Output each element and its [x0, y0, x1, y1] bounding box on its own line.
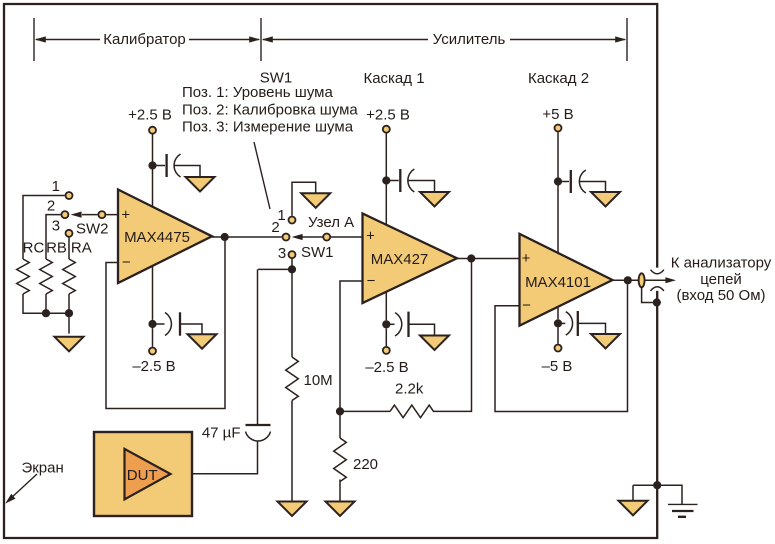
svg-text:+: + — [121, 207, 130, 224]
svg-text:SW2: SW2 — [76, 221, 109, 238]
svg-text:+: + — [522, 250, 531, 267]
svg-text:−: − — [122, 254, 131, 271]
svg-text:2.2k: 2.2k — [395, 380, 424, 397]
svg-text:3: 3 — [278, 245, 286, 262]
svg-text:−: − — [367, 273, 376, 290]
svg-text:2: 2 — [271, 219, 279, 236]
svg-text:+5 В: +5 В — [542, 106, 573, 123]
svg-text:+2.5 В: +2.5 В — [128, 106, 172, 123]
svg-text:Поз. 1: Уровень шума: Поз. 1: Уровень шума — [182, 84, 333, 101]
svg-text:RA: RA — [71, 239, 92, 256]
svg-text:RC: RC — [23, 239, 45, 256]
svg-text:(вход 50 Ом): (вход 50 Ом) — [676, 287, 765, 304]
svg-text:−: − — [522, 297, 531, 314]
svg-text:Поз. 2: Калибровка шума: Поз. 2: Калибровка шума — [182, 101, 358, 118]
svg-text:DUT: DUT — [127, 467, 158, 484]
svg-text:MAX4475: MAX4475 — [124, 229, 190, 246]
svg-text:К анализатору: К анализатору — [671, 255, 772, 272]
svg-text:3: 3 — [52, 218, 60, 235]
svg-text:MAX4101: MAX4101 — [525, 274, 591, 291]
svg-text:1: 1 — [52, 178, 60, 195]
svg-text:Каскад 1: Каскад 1 — [363, 70, 424, 87]
svg-text:SW1: SW1 — [301, 244, 334, 261]
svg-text:10M: 10M — [304, 372, 333, 389]
svg-text:+: + — [366, 228, 375, 245]
svg-text:47 µF: 47 µF — [202, 425, 241, 442]
svg-text:RB: RB — [46, 239, 67, 256]
svg-text:220: 220 — [353, 456, 378, 473]
svg-text:Узел А: Узел А — [308, 214, 354, 231]
svg-text:–2.5 В: –2.5 В — [132, 358, 175, 375]
svg-text:Усилитель: Усилитель — [433, 31, 506, 48]
svg-text:Каскад 2: Каскад 2 — [528, 70, 589, 87]
svg-text:цепей: цепей — [700, 271, 742, 288]
svg-text:–2.5 В: –2.5 В — [365, 359, 408, 376]
svg-text:Поз. 3: Измерение шума: Поз. 3: Измерение шума — [182, 119, 354, 136]
svg-text:–5 В: –5 В — [542, 358, 573, 375]
svg-text:2: 2 — [47, 198, 55, 215]
svg-text:Калибратор: Калибратор — [103, 31, 186, 48]
svg-text:Экран: Экран — [21, 459, 63, 476]
svg-text:MAX427: MAX427 — [371, 251, 429, 268]
svg-text:+2.5 В: +2.5 В — [366, 106, 410, 123]
